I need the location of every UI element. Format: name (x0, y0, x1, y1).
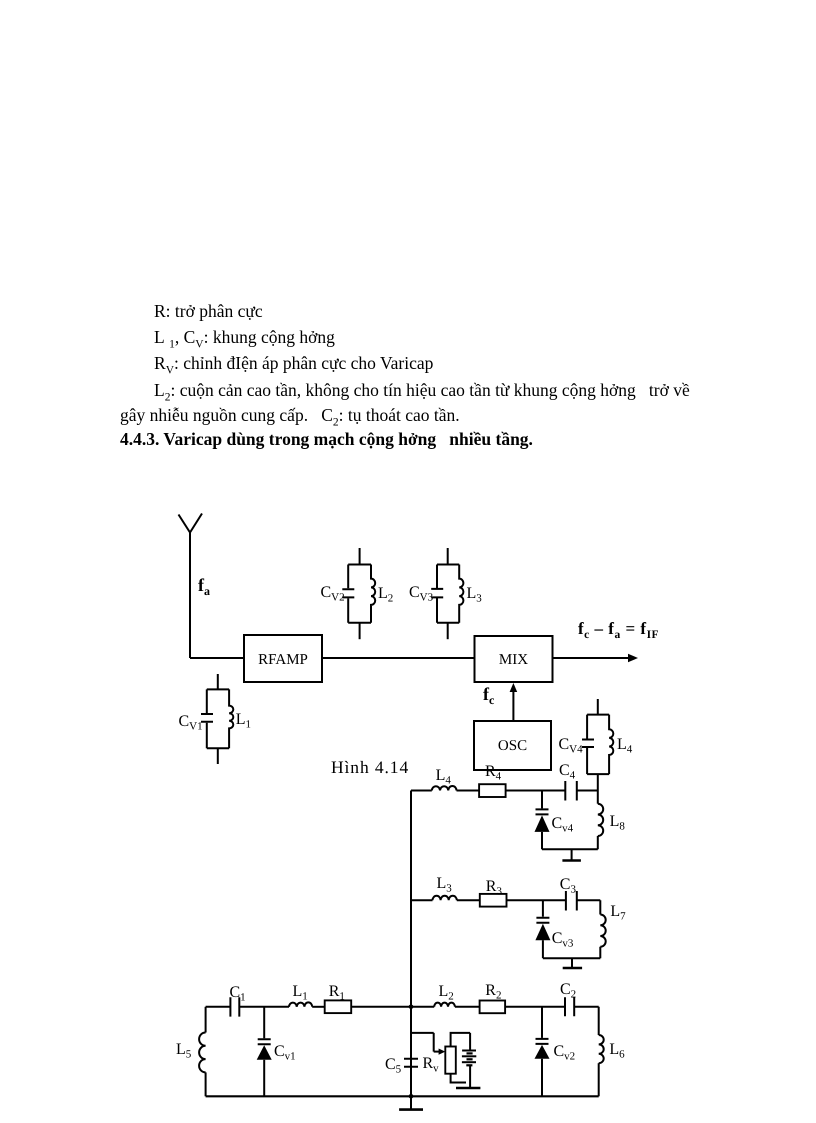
inductor L5 (199, 1033, 206, 1073)
capacitor C1 (230, 997, 239, 1016)
wire (505, 1006, 565, 1008)
wire (457, 899, 480, 901)
ground battery (456, 1087, 480, 1090)
wire (577, 790, 598, 792)
svg-text:Cv1: Cv1 (274, 1043, 296, 1063)
paragraph text (154, 301, 263, 322)
ground row1 (562, 849, 581, 860)
wire (351, 1006, 434, 1008)
wire (239, 1006, 289, 1008)
svg-text:L3: L3 (437, 875, 453, 895)
wire (542, 836, 598, 849)
varicap Cv2 (535, 1007, 550, 1097)
capacitor C2 (565, 997, 574, 1016)
wire (455, 1006, 480, 1008)
svg-text:L5: L5 (176, 1041, 192, 1061)
svg-text:L2: L2 (439, 983, 454, 1003)
svg-text:MIX: MIX (499, 652, 528, 668)
ground main (399, 1096, 423, 1109)
varicap Cv4 (535, 791, 550, 850)
inductor L8 (598, 804, 603, 836)
svg-text:fa: fa (198, 575, 210, 598)
inductor L1 (289, 1002, 312, 1006)
potentiometer Rv (411, 1033, 470, 1083)
svg-text:RFAMP: RFAMP (258, 652, 308, 668)
resistor R1 (325, 1000, 352, 1013)
wire MIX output (553, 657, 630, 659)
wire (577, 900, 601, 914)
wire row1 left (411, 790, 432, 792)
svg-text:C3: C3 (560, 876, 577, 896)
capacitor C3 (566, 891, 577, 911)
svg-text:Rv: Rv (423, 1055, 440, 1075)
tank CV4/L4 (582, 699, 613, 791)
ground row2 (563, 958, 582, 968)
svg-text:R4: R4 (485, 763, 502, 783)
capacitor C4 (565, 781, 577, 801)
wire (507, 899, 566, 901)
wire down right (597, 791, 599, 804)
svg-text:OSC: OSC (498, 738, 527, 754)
inductor L2 (434, 1003, 455, 1007)
svg-text:L1: L1 (293, 983, 308, 1003)
wire row3 bottom (206, 1095, 599, 1097)
wire RFAMP to MIX (322, 657, 475, 659)
varicap Cv3 (535, 900, 550, 958)
wire (312, 1006, 325, 1008)
block RFAMP (244, 635, 322, 682)
svg-text:C4: C4 (559, 762, 576, 782)
svg-text:L8: L8 (610, 813, 626, 833)
svg-text:fc: fc (483, 684, 495, 707)
wire row3 top left (206, 1006, 231, 1008)
svg-text:Cv4: Cv4 (552, 815, 574, 835)
wire left vertical (205, 1007, 207, 1033)
junction dot bus/bottom (409, 1094, 414, 1099)
resistor R4 (479, 784, 506, 797)
svg-text:C5: C5 (385, 1056, 402, 1076)
svg-text:CV1: CV1 (179, 713, 203, 733)
svg-text:L4: L4 (617, 736, 633, 756)
wire (205, 1072, 207, 1096)
svg-text:L2: L2 (378, 585, 393, 605)
antenna (179, 514, 203, 659)
wire (598, 1063, 600, 1096)
wire (506, 790, 566, 792)
wire (574, 1007, 599, 1035)
wire (543, 947, 600, 958)
battery (462, 1051, 476, 1088)
tank CV2/L2 (342, 548, 375, 639)
svg-text:L7: L7 (610, 903, 626, 923)
svg-text:Cv3: Cv3 (552, 930, 574, 950)
svg-text:Cv2: Cv2 (554, 1043, 576, 1063)
junction dot bus/row3 (409, 1005, 414, 1010)
svg-text:R1: R1 (329, 983, 345, 1003)
svg-text:R3: R3 (486, 878, 503, 898)
svg-text:C1: C1 (230, 984, 246, 1004)
svg-text:L4: L4 (436, 767, 452, 787)
tank CV3/L3 (431, 548, 463, 639)
svg-text:fc – fa = fIF: fc – fa = fIF (578, 619, 659, 641)
wire OSC to MIX (512, 690, 514, 721)
resistor R3 (480, 894, 507, 907)
capacitor C5 (404, 1059, 418, 1067)
wire antenna to RFAMP (190, 657, 244, 659)
svg-text:L1: L1 (236, 711, 251, 731)
inductor L3 (433, 896, 457, 901)
block MIX (475, 636, 553, 682)
svg-text:CV4: CV4 (559, 736, 584, 756)
resistor R2 (480, 1001, 506, 1014)
svg-text:L3: L3 (467, 585, 483, 605)
svg-text:R2: R2 (485, 982, 501, 1002)
svg-text:CV2: CV2 (321, 584, 345, 604)
varicap Cv1 (257, 1007, 272, 1097)
svg-text:L6: L6 (609, 1041, 625, 1061)
wire main bus (410, 791, 412, 1097)
svg-text:C2: C2 (560, 981, 576, 1001)
wire row2 left (411, 899, 433, 901)
wire (457, 790, 480, 792)
inductor L4 (432, 786, 457, 791)
block OSC (474, 721, 551, 770)
svg-text:CV3: CV3 (409, 584, 434, 604)
inductor L6 (599, 1035, 604, 1063)
tank CV1/L1 (201, 674, 233, 764)
inductor L7 (600, 915, 605, 947)
svg-text:Hình 4.14: Hình 4.14 (331, 757, 409, 777)
